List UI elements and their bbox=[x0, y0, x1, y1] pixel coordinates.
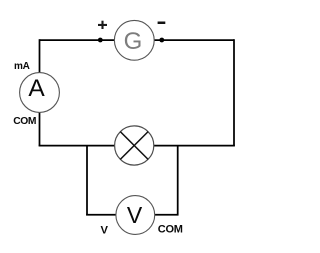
label - bbox=[158, 22, 166, 25]
label + bbox=[98, 21, 107, 29]
svg-text:COM: COM bbox=[158, 223, 183, 235]
wire left upper segment bbox=[39, 39, 41, 73]
wire bottom-left segment bbox=[39, 145, 115, 147]
svg-text:G: G bbox=[124, 28, 143, 55]
ammeter A bbox=[20, 73, 60, 113]
junction dot + terminal bbox=[98, 38, 103, 43]
wire voltmeter branch right vertical bbox=[177, 146, 179, 216]
svg-text:V: V bbox=[127, 202, 143, 228]
wire voltmeter branch left horizontal bbox=[86, 214, 116, 216]
svg-text:COM: COM bbox=[13, 116, 36, 127]
svg-text:V: V bbox=[100, 224, 108, 236]
lamp L1 bbox=[115, 126, 154, 165]
wire left lower segment bbox=[39, 112, 41, 146]
svg-text:A: A bbox=[28, 75, 45, 102]
junction dot - terminal bbox=[159, 38, 164, 43]
svg-text:mA: mA bbox=[14, 61, 30, 72]
galvanometer G bbox=[114, 20, 154, 60]
wire top-left segment bbox=[40, 39, 115, 41]
voltmeter V bbox=[116, 196, 155, 235]
wire voltmeter branch right horizontal bbox=[155, 214, 179, 216]
wire bottom-right segment bbox=[154, 145, 235, 147]
wire voltmeter branch left vertical bbox=[86, 146, 88, 216]
wire right segment bbox=[233, 39, 235, 146]
wire top-right segment bbox=[155, 39, 235, 41]
